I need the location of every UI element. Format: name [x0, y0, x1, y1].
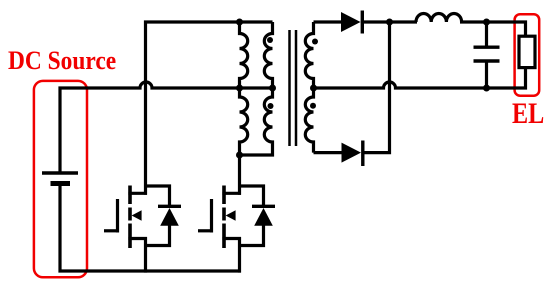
diode D2 triangle — [342, 143, 362, 163]
polarity dot primary P2 upper — [267, 37, 273, 43]
capacitor C top plate — [474, 46, 500, 49]
junction node cap bottom — [483, 85, 490, 92]
transistor Q1 body arrow — [132, 210, 142, 220]
junction node bottom of P1 / Q2 drain — [236, 152, 243, 159]
resistor EL load box — [519, 36, 535, 67]
transistor Q2 channel — [222, 186, 226, 249]
transistor Q1 gate lead — [104, 229, 119, 232]
transformer core — [290, 30, 297, 146]
transistor Q2 drain riser — [238, 155, 241, 195]
transistor Q1 source lead — [128, 237, 147, 240]
label DC Source — [8, 46, 116, 76]
diode D1q body-diode branch wires — [144, 186, 170, 246]
transistor Q2 drain lead — [222, 192, 241, 195]
inductor L and wire to load top — [416, 13, 526, 36]
transistor Q1 gate bar — [116, 199, 119, 233]
junction node D1 cathode / riser — [386, 19, 393, 26]
capacitor C bottom plate — [474, 59, 500, 62]
diode D1 cathode bar — [361, 11, 364, 34]
wire D1 cathode to inductor — [362, 20, 417, 23]
capacitor C riser bottom — [485, 61, 488, 88]
junction node cap top — [483, 19, 490, 26]
transistor Q1 channel — [128, 186, 132, 249]
annotation box EL — [515, 14, 540, 96]
junction node secondary center tap — [310, 85, 317, 92]
transistor Q2 gate lead — [198, 229, 213, 232]
transformer secondary winding (two series coils, center tapped) — [305, 22, 313, 153]
capacitor C riser top — [485, 22, 488, 47]
wire battery negative lead and bottom rail — [60, 186, 241, 271]
wire center-tap return rail with hop over rectifier riser, to load bottom — [314, 68, 526, 88]
diode D2q triangle — [254, 208, 273, 226]
wire secondary bottom to rectifier diode D2 — [314, 151, 342, 154]
polarity dot secondary lower — [310, 103, 316, 109]
annotation box DC source — [34, 81, 87, 277]
diode D1 triangle — [341, 12, 361, 32]
battery negative plate — [51, 181, 71, 186]
transistor Q1 source drop wire — [144, 237, 147, 273]
polarity dot secondary upper — [312, 39, 318, 45]
transformer primary winding P2 (right column, two series coils) and bottom link wire — [240, 22, 273, 155]
diode D1q cathode bar — [158, 205, 181, 208]
junction node mid rail P2 — [269, 85, 276, 92]
transistor Q2 body arrow — [226, 210, 236, 220]
transformer primary winding P1 (left column, two series coils) — [240, 22, 248, 155]
diode D2q body-diode branch wires — [238, 186, 264, 246]
wire rectifier output riser and D2 cathode wire — [362, 22, 390, 153]
wire M1 drain riser and top-left rail — [146, 22, 273, 195]
junction node mid rail P1 — [236, 85, 243, 92]
transistor Q2 gate bar — [210, 199, 213, 233]
wire battery positive lead and mid rail with hop over M1 drain riser — [60, 82, 273, 173]
wire secondary top to rectifier diode D1 — [314, 20, 342, 23]
diode D1q triangle — [160, 208, 179, 226]
diode D2q cathode bar — [252, 205, 275, 208]
transistor Q2 source drop wire — [238, 237, 241, 273]
transistor Q2 source lead — [222, 237, 241, 240]
battery positive plate — [42, 171, 78, 174]
label EL — [512, 97, 544, 131]
polarity dot primary P2 lower — [268, 103, 274, 109]
junction node top of P1 — [236, 19, 243, 26]
transistor Q1 drain lead — [128, 192, 147, 195]
diode D2 cathode bar — [361, 141, 364, 167]
